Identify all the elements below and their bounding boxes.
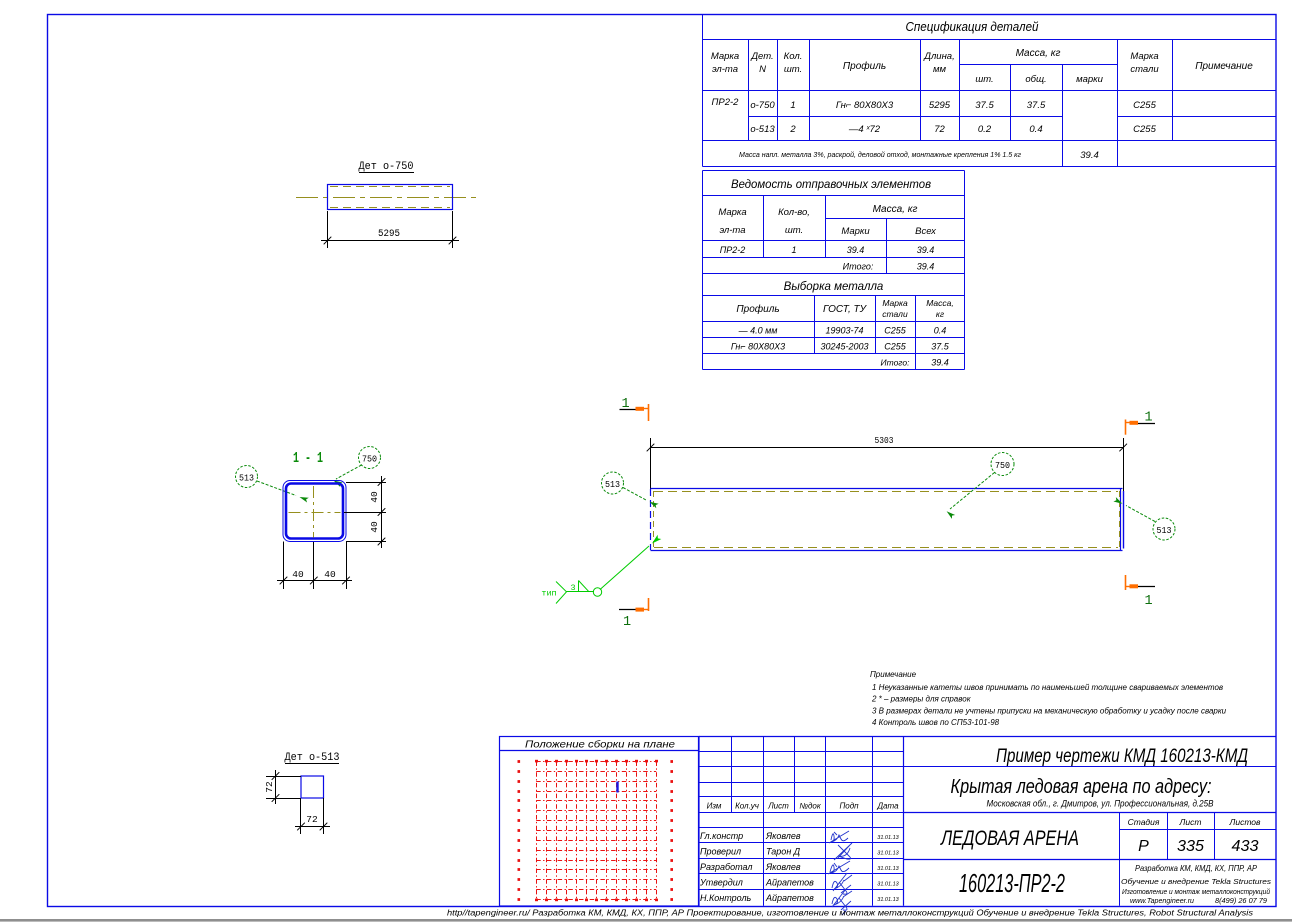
section 1-1 centerlines — [289, 486, 341, 538]
title block signature rows — [699, 831, 900, 903]
svg-text:3: 3 — [570, 583, 575, 593]
svg-text:0.2: 0.2 — [978, 124, 992, 135]
svg-text:Примечание: Примечание — [1195, 61, 1253, 72]
svg-text:С255: С255 — [884, 342, 907, 352]
svg-text:мм: мм — [933, 64, 947, 75]
svg-text:—4 ˣ72: —4 ˣ72 — [848, 124, 881, 135]
svg-text:Н.Контроль: Н.Контроль — [700, 893, 752, 903]
title block company info — [1121, 863, 1271, 905]
svg-text:72: 72 — [934, 124, 945, 135]
svg-text:1 - 1: 1 - 1 — [293, 450, 323, 467]
svg-text:Изготовление и монтаж металлок: Изготовление и монтаж металлоконструкций — [1122, 888, 1270, 896]
svg-text:39.4: 39.4 — [917, 262, 935, 272]
svg-text:31.01.13: 31.01.13 — [877, 851, 899, 857]
svg-text:5295: 5295 — [378, 228, 400, 240]
svg-text:№док: №док — [799, 802, 822, 811]
svg-text:Московская обл., г. Дмитров, у: Московская обл., г. Дмитров, ул. Професс… — [987, 799, 1214, 809]
svg-text:эл-та: эл-та — [719, 225, 745, 236]
beam hidden lines — [654, 491, 1120, 548]
title block document number — [959, 868, 1065, 898]
svg-text:2 * – размеры для справок: 2 * – размеры для справок — [871, 695, 972, 704]
detail o-750 hidden lines — [330, 187, 450, 208]
svg-text:шт.: шт. — [784, 64, 802, 75]
title block object name — [951, 776, 1214, 809]
section 1-1 title — [293, 450, 323, 467]
svg-text:30245-2003: 30245-2003 — [820, 342, 868, 352]
svg-text:8(499) 26 07 79: 8(499) 26 07 79 — [1215, 898, 1267, 905]
detail o-513 dimension 72 bottom — [295, 798, 330, 834]
svg-text:40: 40 — [369, 521, 380, 533]
beam end plate right — [1123, 491, 1125, 549]
signatures — [828, 831, 852, 915]
svg-text:19903-74: 19903-74 — [825, 326, 863, 336]
svg-text:513: 513 — [239, 473, 254, 484]
svg-text:Марка: Марка — [718, 207, 746, 218]
svg-text:шт.: шт. — [975, 74, 993, 85]
svg-text:1 Неуказанные катеты швов при: 1 Неуказанные катеты швов принимать по н… — [872, 683, 1223, 692]
svg-text:Марка: Марка — [711, 51, 739, 62]
svg-text:Профиль: Профиль — [843, 60, 886, 72]
svg-text:Масса напл. металла 3%, раскро: Масса напл. металла 3%, раскрой, деловой… — [739, 150, 1021, 159]
assembly position panel title — [525, 739, 675, 751]
svg-text:750: 750 — [362, 454, 377, 465]
svg-text:С255: С255 — [884, 326, 907, 336]
svg-text:N: N — [759, 64, 766, 75]
svg-text:Яковлев: Яковлев — [765, 831, 801, 841]
svg-text:Спецификация деталей: Спецификация деталей — [906, 19, 1039, 34]
svg-text:Примечание: Примечание — [870, 670, 917, 679]
balloon 750 beam — [945, 453, 1014, 519]
title block project name — [996, 746, 1248, 767]
assembly position panel box — [500, 737, 700, 907]
balloon 513 beam left — [602, 472, 659, 508]
svg-text:2: 2 — [789, 124, 796, 135]
section mark 1 top-left — [620, 397, 650, 421]
svg-text:стали: стали — [1130, 64, 1159, 75]
svg-text:31.01.13: 31.01.13 — [877, 866, 899, 872]
svg-text:Масса, кг: Масса, кг — [1016, 48, 1061, 59]
svg-text:433: 433 — [1232, 838, 1259, 855]
svg-text:Разработал: Разработал — [700, 862, 752, 872]
svg-text:39.4: 39.4 — [847, 245, 865, 255]
svg-text:31.01.13: 31.01.13 — [877, 882, 899, 888]
svg-text:кг: кг — [936, 309, 944, 319]
svg-text:Дата: Дата — [876, 802, 899, 811]
svg-text:Итого:: Итого: — [843, 262, 874, 272]
svg-text:72: 72 — [264, 781, 275, 793]
assembly highlighted member — [616, 782, 618, 793]
svg-text:37.5: 37.5 — [975, 100, 994, 111]
svg-text:5303: 5303 — [875, 436, 894, 446]
svg-text:Выборка металла: Выборка металла — [784, 281, 884, 293]
svg-text:Марка: Марка — [882, 298, 908, 308]
svg-text:о-750: о-750 — [750, 100, 775, 111]
weld leader — [600, 535, 661, 590]
svg-text:www.Tapengineer.ru: www.Tapengineer.ru — [1130, 898, 1194, 905]
svg-text:Дет о-513: Дет о-513 — [285, 752, 340, 764]
svg-text:750: 750 — [995, 460, 1010, 471]
svg-text:5295: 5295 — [929, 100, 951, 111]
svg-text:Айрапетов: Айрапетов — [765, 893, 814, 903]
footer text — [447, 909, 1253, 918]
svg-text:31.01.13: 31.01.13 — [877, 897, 899, 903]
svg-text:3 В размерах детали не учтены: 3 В размерах детали не учтены припуски н… — [872, 707, 1227, 716]
svg-text:335: 335 — [1177, 838, 1204, 855]
metal selection table text — [731, 281, 954, 368]
section 1-1 bottom dimensions 40/40 — [277, 542, 352, 590]
svg-text:0.4: 0.4 — [1029, 124, 1042, 135]
svg-text:39.4: 39.4 — [931, 358, 949, 368]
svg-text:Марка: Марка — [1130, 51, 1158, 62]
svg-text:Проверил: Проверил — [700, 847, 741, 857]
svg-text:Гл.констр: Гл.констр — [700, 831, 743, 841]
svg-text:Положение сборки на плане: Положение сборки на плане — [525, 739, 675, 751]
balloon 513 beam right — [1113, 497, 1175, 540]
svg-text:Всех: Всех — [915, 226, 937, 237]
svg-text:http//tapengineer.ru/ Разраб: http//tapengineer.ru/ Разработка КМ, КМД… — [447, 909, 1253, 918]
svg-text:тип: тип — [541, 589, 556, 599]
title block stage/sheet — [1128, 817, 1261, 855]
svg-text:Утвердил: Утвердил — [699, 878, 743, 888]
shipping elements table grid — [703, 171, 965, 274]
svg-text:ПР2-2: ПР2-2 — [720, 245, 746, 255]
detail o-750 dimension 5295 — [321, 211, 459, 248]
svg-text:40: 40 — [369, 491, 380, 503]
svg-text:Изм: Изм — [707, 802, 722, 811]
svg-text:513: 513 — [1157, 525, 1172, 536]
section 1-1 tube profile — [283, 481, 346, 542]
beam dimension 5303 — [647, 436, 1127, 504]
svg-text:1: 1 — [790, 100, 795, 111]
svg-text:Гн⌐ 80Х80Х3: Гн⌐ 80Х80Х3 — [731, 342, 785, 352]
svg-text:1: 1 — [623, 615, 631, 630]
beam outline — [651, 489, 1123, 551]
metal selection table grid — [703, 274, 965, 370]
svg-text:Тарон Д: Тарон Д — [766, 847, 801, 857]
svg-text:4 Контроль швов по СП53-101-9: 4 Контроль швов по СП53-101-98 — [872, 718, 1000, 727]
svg-text:ЛЕДОВАЯ АРЕНА: ЛЕДОВАЯ АРЕНА — [939, 827, 1079, 850]
title block revision header — [707, 802, 900, 811]
notes — [870, 670, 1227, 727]
svg-text:Айрапетов: Айрапетов — [765, 878, 814, 888]
svg-text:Дет о-750: Дет о-750 — [359, 161, 414, 173]
svg-text:Дет.: Дет. — [750, 51, 773, 62]
svg-text:Ведомость отправочных элементо: Ведомость отправочных элементов — [731, 177, 931, 191]
svg-text:Масса,: Масса, — [926, 298, 954, 308]
detail o-513 dimension 72 left — [264, 770, 301, 804]
svg-text:0.4: 0.4 — [934, 326, 947, 336]
svg-text:Разработка КМ, КМД, КХ, ППР, А: Разработка КМ, КМД, КХ, ППР, АР — [1135, 863, 1257, 873]
specification table text — [711, 19, 1253, 161]
svg-text:о-513: о-513 — [750, 124, 775, 135]
svg-text:С255: С255 — [1133, 124, 1156, 135]
window bottom bar — [0, 919, 1292, 922]
svg-text:Обучение и внедрение Tekla St: Обучение и внедрение Tekla Structures — [1121, 877, 1271, 886]
assembly plan red grid — [518, 760, 674, 901]
svg-text:Кол.: Кол. — [784, 51, 803, 62]
svg-text:Листов: Листов — [1229, 817, 1262, 827]
svg-text:Марки: Марки — [841, 226, 870, 237]
svg-text:Кол.уч: Кол.уч — [735, 802, 759, 811]
title block grid — [699, 737, 1277, 906]
svg-text:— 4.0 мм: — 4.0 мм — [738, 326, 778, 336]
svg-text:Кол-во,: Кол-во, — [778, 207, 810, 218]
detail o-750 title — [359, 161, 415, 173]
section mark 1 bottom-right — [1125, 575, 1155, 609]
detail o-750 body — [328, 185, 453, 210]
svg-text:40: 40 — [324, 569, 336, 580]
weld symbol — [541, 581, 601, 604]
svg-text:Крытая ледовая арена по адресу: Крытая ледовая арена по адресу: — [951, 776, 1212, 798]
svg-text:160213-ПР2-2: 160213-ПР2-2 — [959, 868, 1065, 898]
balloon 513 section — [236, 466, 309, 503]
svg-text:С255: С255 — [1133, 100, 1156, 111]
svg-text:513: 513 — [605, 479, 620, 490]
svg-text:Лист: Лист — [1179, 817, 1202, 827]
title block drawing name — [939, 827, 1079, 850]
svg-text:марки: марки — [1076, 74, 1104, 85]
svg-text:37.5: 37.5 — [1027, 100, 1046, 111]
svg-text:шт.: шт. — [785, 225, 803, 236]
svg-text:37.5: 37.5 — [931, 342, 950, 352]
svg-text:Р: Р — [1138, 838, 1149, 855]
section mark 1 bottom-left — [619, 598, 649, 630]
svg-text:Длина,: Длина, — [923, 51, 954, 62]
detail o-513 title — [285, 752, 340, 764]
detail o-750 centerline — [296, 197, 480, 199]
svg-text:Пример чертежи КМД 160213-КМД: Пример чертежи КМД 160213-КМД — [996, 746, 1248, 767]
svg-text:Подп: Подп — [839, 802, 859, 811]
svg-text:39.4: 39.4 — [1080, 150, 1099, 161]
svg-text:72: 72 — [306, 814, 318, 825]
detail o-513 body — [301, 776, 324, 798]
svg-text:Гн⌐ 80Х80Х3: Гн⌐ 80Х80Х3 — [836, 100, 894, 111]
svg-text:ГОСТ, ТУ: ГОСТ, ТУ — [823, 304, 868, 315]
svg-text:Профиль: Профиль — [736, 303, 779, 315]
svg-text:39.4: 39.4 — [917, 245, 935, 255]
shipping elements table text — [718, 177, 937, 272]
svg-text:эл-та: эл-та — [712, 64, 738, 75]
specification table grid — [703, 15, 1277, 167]
svg-text:Итого:: Итого: — [881, 358, 911, 368]
svg-text:1: 1 — [1144, 594, 1152, 609]
svg-text:31.01.13: 31.01.13 — [877, 835, 899, 841]
svg-text:Яковлев: Яковлев — [765, 862, 801, 872]
svg-text:общ.: общ. — [1025, 74, 1046, 85]
svg-text:ПР2-2: ПР2-2 — [712, 97, 740, 108]
svg-text:Стадия: Стадия — [1128, 817, 1160, 827]
svg-text:1: 1 — [791, 245, 796, 255]
svg-text:стали: стали — [882, 309, 908, 319]
svg-text:Лист: Лист — [767, 802, 789, 811]
svg-text:40: 40 — [292, 569, 304, 580]
section mark 1 top-right — [1125, 411, 1155, 435]
balloon 750 section — [332, 447, 380, 487]
svg-text:Масса, кг: Масса, кг — [873, 204, 918, 215]
section 1-1 right dimensions 40/40 — [344, 476, 386, 548]
